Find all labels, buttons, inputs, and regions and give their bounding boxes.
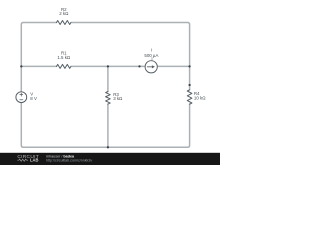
svg-text:LAB: LAB — [30, 158, 38, 163]
node at right middle junction — [188, 65, 190, 67]
voltage source V circle — [16, 92, 27, 103]
voltage source minus sign — [20, 99, 23, 101]
wire right vertical lower with rounded corner to bottom wire — [108, 104, 190, 147]
svg-text:1.5 kΩ: 1.5 kΩ — [57, 55, 71, 60]
wire top-right horizontal segment with rounded corner — [71, 23, 189, 90]
svg-text:10 kΩ: 10 kΩ — [194, 95, 206, 100]
wire center vertical upper — [107, 66, 109, 91]
node at left middle junction — [20, 65, 22, 67]
svg-text:500 µA: 500 µA — [144, 53, 158, 58]
current source arrowhead — [152, 65, 155, 68]
wire top-left horizontal segment with rounded corner — [21, 23, 56, 92]
resistor R2 — [57, 21, 71, 25]
wire middle horizontal right segment — [157, 65, 189, 67]
current source I circle — [145, 61, 157, 73]
voltage source plus sign — [20, 93, 23, 96]
resistor R3 — [106, 92, 111, 105]
resistor R1 — [57, 64, 71, 68]
svg-text:8 V: 8 V — [30, 96, 37, 101]
resistor R4 — [187, 90, 192, 104]
node at bottom center junction — [107, 146, 109, 148]
svg-text:3 kΩ: 3 kΩ — [113, 96, 123, 101]
wire middle horizontal center segment — [71, 65, 145, 67]
wire left vertical lower with rounded corner to bottom wire — [21, 103, 108, 148]
svg-text:http://circuitlab.com/c/nnkk3v: http://circuitlab.com/c/nnkk3v — [46, 159, 92, 163]
wire middle horizontal left segment — [21, 65, 56, 67]
node left of current source — [138, 65, 140, 67]
wire center vertical lower — [107, 104, 109, 147]
current source arrow — [147, 66, 152, 68]
svg-text:2 kΩ: 2 kΩ — [59, 11, 69, 16]
node above resistor R4 — [188, 84, 190, 86]
current source top tick mark — [151, 58, 153, 61]
logo resistor zigzag — [17, 159, 28, 161]
node at center top junction — [107, 65, 109, 67]
watermark bar — [0, 153, 220, 165]
